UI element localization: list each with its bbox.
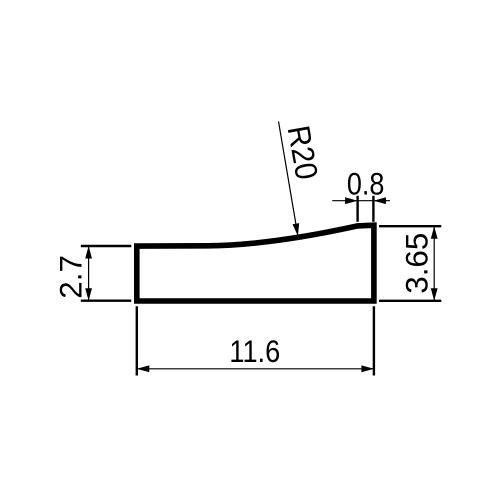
svg-text:11.6: 11.6 [229,334,280,369]
dim 0.8 arrow pointing right [345,197,358,204]
dim 0.8 arrow pointing left [373,197,386,204]
dim 3.65 extension line bottom [379,300,441,302]
dim 3.65 dimension line [433,226,435,301]
svg-text:3.65: 3.65 [400,233,435,294]
dim 2.7 arrow down [85,288,92,301]
dim 11.6 arrow left [137,365,150,372]
dim 3.65 arrow down [431,288,438,301]
radius leader arrowhead [293,223,300,236]
dim 0.8 extension line left [356,196,358,222]
dim 3.65 extension line top [379,225,441,227]
dim 3.65 arrow up [431,226,438,239]
svg-text:0.8: 0.8 [347,166,385,201]
dim 2.7 extension line bottom [81,300,132,302]
dim 0.8 extension line right [372,196,374,222]
dim 11.6 arrow right [361,365,374,372]
radius leader line R20 [279,122,296,225]
dim 2.7 dimension line [88,246,90,301]
dim 11.6 extension line left [136,306,138,375]
dim 2.7 arrow up [85,246,92,259]
profile outline [137,225,374,301]
dim 0.8 dimension line [332,200,390,202]
dim 2.7 extension line top [81,245,132,247]
dim 11.6 extension line right [373,306,375,375]
svg-text:2.7: 2.7 [54,255,89,299]
dim 11.6 dimension line [137,368,374,370]
